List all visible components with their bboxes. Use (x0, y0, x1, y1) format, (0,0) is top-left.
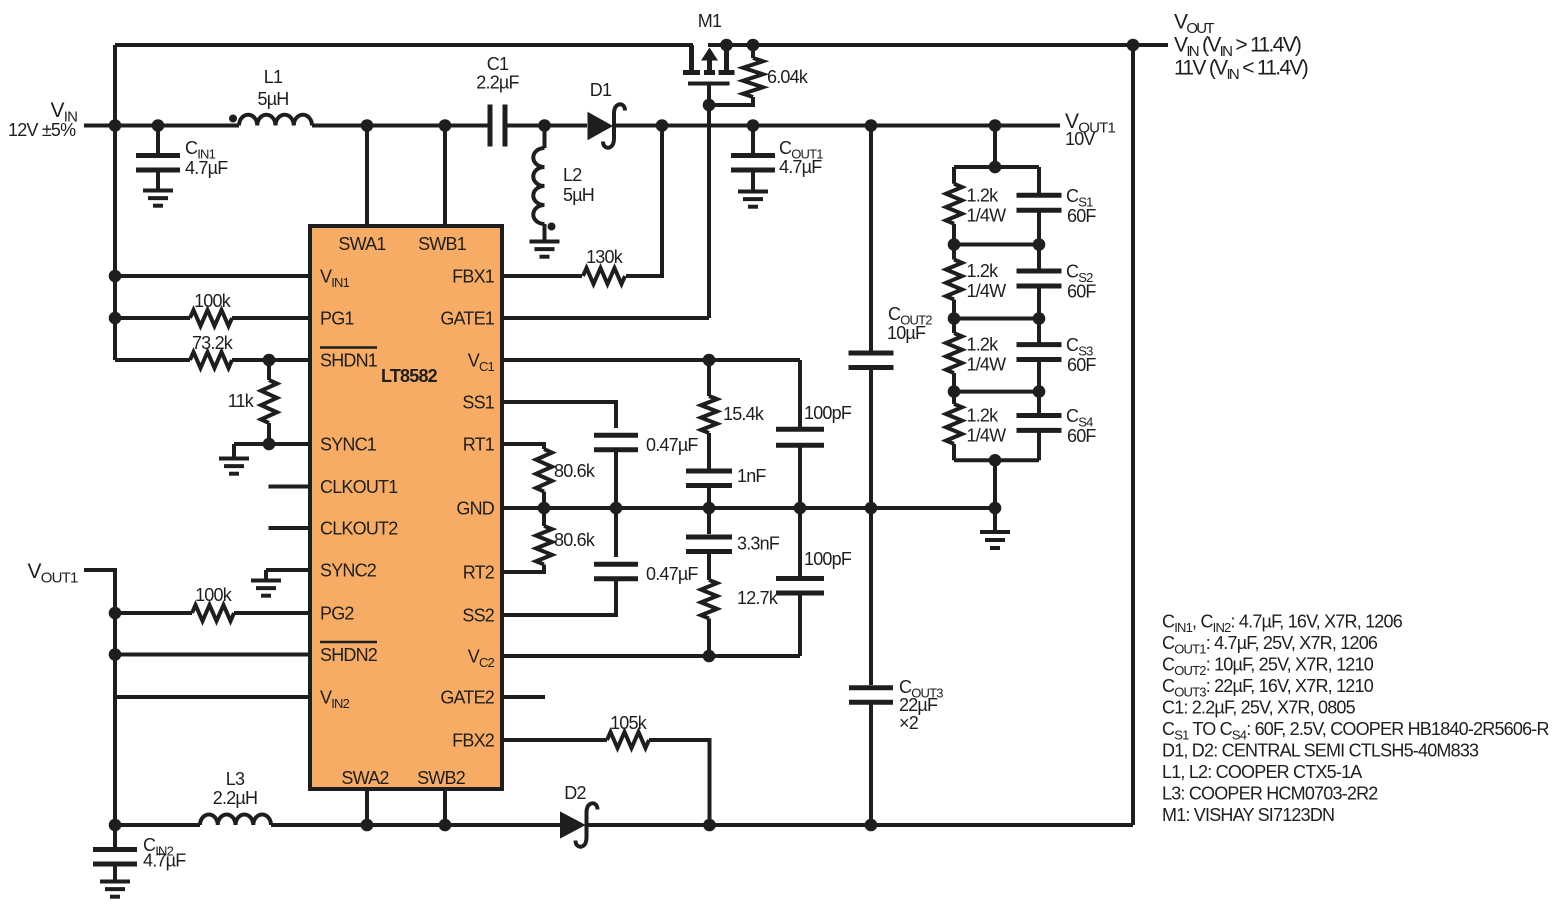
svg-text:4.7µF: 4.7µF (185, 158, 228, 178)
svg-text:105k: 105k (610, 713, 648, 733)
wire VOUT lead stub (1133, 43, 1168, 47)
inductor L2 stub (543, 126, 547, 149)
wire ladder bar y391.6 (954, 390, 1039, 394)
capacitor 1nF (686, 468, 732, 473)
wire 3.3nF top stub (707, 508, 711, 534)
capacitor CIN2 stem (113, 864, 117, 881)
wire 3.3nF to 12.7k (707, 552, 711, 581)
svg-text:GATE1: GATE1 (440, 309, 494, 329)
inductor L1 (239, 115, 312, 126)
wire SYNC1 row (269, 442, 310, 446)
svg-text:COUT3: 22µF, 16V, X7R, 1210: COUT3: 22µF, 16V, X7R, 1210 (1162, 676, 1374, 700)
wire CLKOUT2 stub (269, 526, 311, 530)
ground GND row (980, 530, 1010, 534)
transistor M1 drain stub (689, 45, 694, 70)
wire SS1 row (502, 402, 616, 428)
node FBX2 bottom dot (703, 819, 716, 832)
capacitor CS1 bottom stub (1037, 210, 1041, 244)
wire SHDN1 row left (115, 358, 190, 362)
transistor M1 drain bar (683, 70, 700, 75)
svg-text:1.2k: 1.2k (967, 185, 1000, 205)
wire SYNC1 ground stem (232, 444, 236, 458)
svg-text:LT8582: LT8582 (381, 366, 438, 386)
node VIN lead (84, 124, 239, 128)
node ladder left dot y391.6 (948, 385, 961, 398)
node ladder right dot y244.5 (1033, 238, 1046, 251)
node COUT2 top dot (865, 119, 878, 132)
wire L1 to C1 (312, 124, 488, 128)
capacitor CS2 bottom stub (1037, 286, 1041, 319)
svg-text:1/4W: 1/4W (967, 281, 1007, 301)
transistor M1 source bar (719, 70, 735, 75)
resistor 1.2k #3 top stub (952, 319, 956, 334)
wire 100pF top to GND row (798, 445, 802, 508)
diode D2 schottky cathode (576, 803, 598, 846)
node VOUT junction dot (1127, 39, 1140, 52)
capacitor CIN2 (93, 847, 137, 852)
svg-text:3.3nF: 3.3nF (737, 534, 780, 554)
node SHDN1 dot (263, 354, 276, 367)
node ladder top bar dot (989, 161, 1002, 174)
wire SWB1 vertical (443, 126, 447, 227)
wire gate to 6.04k (709, 97, 753, 105)
node L2 tap dot (538, 119, 551, 132)
wire 80.6k RT2 top stub (542, 508, 546, 526)
resistor 130k (583, 268, 625, 284)
svg-text:D1: D1 (590, 80, 612, 100)
wire ladder top stub (993, 126, 997, 168)
diode D1 schottky cathode (603, 104, 625, 147)
wire M1 gate to GATE1 (707, 105, 711, 318)
svg-text:60F: 60F (1067, 206, 1096, 226)
resistor 1.2k #3 (946, 333, 962, 373)
svg-text:L2: L2 (563, 165, 582, 185)
wire top rail left (VIN to M1 drain) (115, 43, 693, 47)
wire VOUT1 lead left (84, 570, 115, 825)
wire top rail right (M1 source to VOUT) (708, 43, 1133, 47)
ground CIN1 (143, 189, 173, 193)
wire COUT3 lower (869, 703, 873, 826)
svg-text:C1: 2.2µF, 25V, X7R, 0805: C1: 2.2µF, 25V, X7R, 0805 (1162, 698, 1356, 718)
ground CIN2 (100, 880, 130, 884)
resistor 1.2k #2 bottom stub (952, 300, 956, 319)
capacitor 100pF bottom (776, 576, 824, 581)
node COUT3 bottom dot (865, 819, 878, 832)
resistor 100k PG1 (190, 310, 232, 326)
wire FBX2 row left (502, 738, 607, 742)
node VIN junction dot (109, 119, 122, 132)
node ladder left dot y244.5 (948, 238, 961, 251)
wire COUT3 upper (869, 508, 873, 685)
capacitor CIN2 stub (113, 825, 117, 847)
wire SYNC2 row (266, 568, 310, 572)
svg-text:80.6k: 80.6k (554, 461, 596, 481)
svg-text:GND: GND (456, 499, 494, 519)
svg-text:100pF: 100pF (804, 403, 852, 423)
capacitor CS4 bottom stub (1037, 430, 1041, 460)
node SWB2 dot (439, 819, 452, 832)
svg-text:130k: 130k (586, 247, 624, 267)
node GND 1nF dot (703, 502, 716, 515)
resistor 1.2k #1 bottom stub (952, 224, 956, 245)
IC pin SHDN1 overline (320, 346, 377, 349)
svg-text:4.7µF: 4.7µF (143, 851, 186, 871)
svg-text:VOUT1: VOUT1 (28, 560, 78, 587)
wire COUT2 lower (869, 368, 873, 509)
capacitor CS2 (1017, 269, 1062, 274)
resistor 1.2k #1 (946, 184, 962, 224)
svg-text:PG1: PG1 (320, 309, 354, 329)
inductor L1 phasing dot (229, 115, 237, 123)
node PG2 dot (109, 607, 122, 620)
wire 1nF to GND row (707, 486, 711, 509)
transistor M1 gate bar (688, 82, 730, 86)
node SWA1 top dot (361, 119, 374, 132)
svg-text:L3: COOPER HCM0703-2R2: L3: COOPER HCM0703-2R2 (1162, 784, 1378, 804)
capacitor COUT1 stub (751, 126, 755, 154)
capacitor C1 (488, 105, 493, 147)
svg-text:1nF: 1nF (737, 466, 766, 486)
IC pin SHDN2 overline (320, 641, 377, 644)
inductor L2 (533, 148, 544, 224)
diode D2 anode triangle (561, 813, 584, 837)
node SYNC1 dot (263, 438, 276, 451)
svg-text:60F: 60F (1067, 426, 1096, 446)
wire 15.4k to 1nF (707, 433, 711, 471)
capacitor CS2 top stub (1037, 245, 1041, 272)
svg-text:M1: M1 (698, 11, 722, 31)
svg-text:SHDN1: SHDN1 (320, 351, 378, 371)
node M1 gate dot (703, 99, 716, 112)
svg-text:SWB2: SWB2 (417, 768, 466, 788)
svg-text:100k: 100k (195, 585, 233, 605)
capacitor COUT2 (849, 350, 894, 355)
svg-text:15.4k: 15.4k (723, 404, 765, 424)
svg-text:CS1 TO CS4: 60F, 2.5V, COOPER: CS1 TO CS4: 60F, 2.5V, COOPER HB1840-2R5… (1162, 719, 1549, 743)
svg-text:CLKOUT2: CLKOUT2 (320, 519, 398, 539)
wire 0.47uF bot top stub (614, 508, 618, 557)
svg-text:4.7µF: 4.7µF (779, 157, 822, 177)
capacitor CS3 (1017, 342, 1062, 347)
inductor L2 phasing dot (548, 223, 556, 231)
resistor 100k PG2 (192, 605, 234, 621)
resistor 15.4k (701, 396, 717, 433)
svg-text:×2: ×2 (899, 713, 919, 733)
svg-text:L1, L2: COOPER CTX5-1A: L1, L2: COOPER CTX5-1A (1162, 762, 1362, 782)
ground SYNC2 (251, 579, 281, 583)
wire VIN2 row (115, 695, 310, 699)
svg-text:CLKOUT1: CLKOUT1 (320, 477, 398, 497)
node PG1 dot (109, 312, 122, 325)
node D1 cathode dot (656, 119, 669, 132)
wire SWB2 vertical (443, 789, 447, 825)
transistor M1 gate stem (707, 84, 711, 106)
svg-text:CIN1, CIN2: 4.7µF, 16V, X7R, 1: CIN1, CIN2: 4.7µF, 16V, X7R, 1206 (1162, 612, 1403, 636)
wire VOUT1 lead right (995, 124, 1060, 128)
resistor 11k (261, 380, 277, 423)
capacitor CIN1 dot (152, 119, 165, 132)
resistor 1.2k #4 (946, 404, 962, 444)
wire SWA1 vertical (365, 126, 369, 227)
wire ladder bottom bar (954, 458, 1039, 462)
diode D1 anode triangle (589, 114, 612, 139)
node GND 0.47uF dot (610, 502, 623, 515)
svg-text:2.2µF: 2.2µF (476, 73, 519, 93)
svg-text:RT2: RT2 (463, 563, 495, 583)
wire 6.04k top (751, 45, 755, 58)
wire PG1 row left (115, 316, 190, 320)
wire RT2 row (502, 565, 544, 573)
wire 11k top stub (267, 360, 271, 380)
wire FBX1 row left (502, 274, 582, 278)
resistor 80.6k RT1 (536, 449, 552, 492)
node bottom rail CIN2 dot (109, 819, 122, 832)
svg-text:80.6k: 80.6k (554, 530, 596, 550)
svg-text:22µF: 22µF (899, 695, 938, 715)
wire GND row (502, 506, 995, 510)
wire ladder bottom stub (993, 460, 997, 508)
resistor 1.2k #4 top stub (952, 392, 956, 404)
wire 100pF top stub (798, 360, 802, 429)
transistor M1 source stub (724, 45, 729, 70)
node SWB1 top dot (439, 119, 452, 132)
capacitor 0.47uF top (594, 433, 638, 438)
capacitor CIN1 (136, 153, 180, 158)
svg-text:6.04k: 6.04k (767, 67, 809, 87)
wire SWA2 vertical (365, 789, 369, 825)
svg-text:0.47µF: 0.47µF (646, 435, 698, 455)
resistor 1.2k #2 top stub (952, 245, 956, 260)
wire L3 to D2 (271, 823, 561, 827)
svg-text:RT1: RT1 (463, 435, 495, 455)
svg-text:11V (VIN < 11.4V): 11V (VIN < 11.4V) (1174, 57, 1308, 84)
svg-text:2.2µH: 2.2µH (213, 788, 257, 808)
node GND COUT2 dot (865, 502, 878, 515)
svg-text:60F: 60F (1067, 282, 1096, 302)
svg-text:1.2k: 1.2k (967, 335, 1000, 355)
node GND 100pF dot (794, 502, 807, 515)
IC U1 LT8582 body (310, 226, 502, 789)
node SWA2 dot (361, 819, 374, 832)
wire COUT2 upper (869, 126, 873, 351)
wire SHDN2 row (115, 653, 310, 657)
svg-text:SWA1: SWA1 (338, 234, 386, 254)
wire RT1 row (502, 444, 544, 449)
wire VOUT right vertical (1131, 45, 1135, 825)
node ladder right dot y391.6 (1033, 385, 1046, 398)
wire D2 to VOUT (588, 823, 1133, 827)
svg-text:SYNC2: SYNC2 (320, 561, 377, 581)
wire PG2 row left (115, 611, 192, 615)
svg-text:D2: D2 (564, 783, 586, 803)
wire SYNC2 ground stem (264, 570, 268, 580)
capacitor CIN1 stub (156, 126, 160, 154)
capacitor 0.47uF bottom (594, 562, 638, 567)
svg-text:1/4W: 1/4W (967, 355, 1007, 375)
svg-text:M1: VISHAY SI7123DN: M1: VISHAY SI7123DN (1162, 805, 1334, 825)
ground L2 (530, 240, 560, 244)
capacitor CS4 (1017, 413, 1062, 418)
svg-text:5µH: 5µH (258, 89, 289, 109)
wire 100pF bot to VC2 row (798, 593, 802, 656)
wire 0.47uF top to GND row (614, 450, 618, 508)
wire 12.7k to VC2 row (707, 619, 711, 657)
svg-text:L1: L1 (264, 67, 283, 87)
svg-text:SWA2: SWA2 (341, 768, 389, 788)
node VIN1 dot (109, 270, 122, 283)
node GND 80.6k dot (538, 502, 551, 515)
svg-text:73.2k: 73.2k (192, 333, 234, 353)
svg-text:SS2: SS2 (462, 606, 494, 626)
node VC1 15.4k dot (703, 354, 716, 367)
svg-text:D1, D2: CENTRAL SEMI CTLSH5-40: D1, D2: CENTRAL SEMI CTLSH5-40M833 (1162, 741, 1479, 761)
resistor 1.2k #3 bottom stub (952, 373, 956, 392)
wire FBX2 row right (649, 740, 710, 825)
capacitor CIN1 stem (156, 170, 160, 190)
node ladder left dot y318.5 (948, 312, 961, 325)
capacitor 100pF top (776, 427, 824, 432)
wire bottom rail left (115, 823, 200, 827)
svg-text:FBX1: FBX1 (452, 267, 495, 287)
wire left vertical VIN (113, 45, 117, 360)
svg-text:5µH: 5µH (563, 185, 594, 205)
svg-text:1.2k: 1.2k (967, 261, 1000, 281)
resistor 80.6k RT2 (536, 526, 552, 565)
resistor 1.2k #4 bottom stub (952, 444, 956, 460)
svg-text:SHDN2: SHDN2 (320, 645, 378, 665)
svg-text:1/4W: 1/4W (967, 425, 1007, 445)
svg-text:0.47µF: 0.47µF (646, 564, 698, 584)
svg-text:1.2k: 1.2k (967, 405, 1000, 425)
wire GATE1 row (502, 316, 709, 320)
svg-text:C1: C1 (487, 54, 509, 74)
inductor L2 stem (543, 224, 547, 241)
wire 80.6k RT1 to GND row (542, 492, 546, 509)
wire 11k bottom stub (267, 423, 271, 444)
ground SYNC1 (219, 457, 249, 461)
capacitor COUT3 (849, 685, 893, 690)
svg-text:10V: 10V (1065, 129, 1095, 149)
wire SHDN1 row right (232, 358, 310, 362)
svg-text:GATE2: GATE2 (440, 688, 494, 708)
node 6.04k top dot (747, 39, 760, 52)
wire SS2 row (502, 579, 616, 615)
wire FBX1 row right (626, 126, 662, 277)
resistor 12.7k (701, 580, 717, 619)
capacitor CS1 top stub (1037, 167, 1041, 195)
wire VIN1 row (115, 274, 310, 278)
wire VC1 row (502, 358, 800, 362)
svg-text:1/4W: 1/4W (967, 205, 1007, 225)
node ladder top dot (989, 119, 1002, 132)
svg-text:SYNC1: SYNC1 (320, 435, 377, 455)
wire PG1 row right (232, 316, 310, 320)
wire SYNC1 ground lead (234, 442, 269, 446)
node COUT1 dot (747, 119, 760, 132)
wire CLKOUT1 stub (269, 485, 311, 489)
node SHDN2 dot (109, 648, 122, 661)
capacitor CS4 top stub (1037, 392, 1041, 416)
node ladder bottom dot (989, 454, 1002, 467)
svg-text:PG2: PG2 (320, 604, 354, 624)
wire PG2 row right (234, 611, 310, 615)
resistor 73.2k (190, 352, 232, 368)
wire ladder top bar (954, 165, 1039, 169)
capacitor COUT1 stem (751, 170, 755, 191)
resistor 1.2k #1 top stub (952, 167, 956, 184)
wire GATE2 stub (502, 695, 545, 699)
capacitor CS1 (1017, 193, 1062, 198)
wire ladder bar y318.5 (954, 317, 1039, 321)
wire C1 to D1 (508, 124, 588, 128)
svg-text:10µF: 10µF (887, 323, 926, 343)
node ladder right dot y318.5 (1033, 312, 1046, 325)
svg-text:COUT2: 10µF, 25V, X7R, 1210: COUT2: 10µF, 25V, X7R, 1210 (1162, 655, 1374, 679)
inductor L3 (200, 815, 271, 825)
resistor 1.2k #2 (946, 260, 962, 300)
ground COUT1 (738, 190, 768, 194)
svg-text:100k: 100k (194, 291, 232, 311)
wire VC2 row (502, 654, 800, 658)
svg-text:12.7k: 12.7k (737, 588, 779, 608)
svg-text:SS1: SS1 (462, 393, 494, 413)
svg-text:COUT1: 4.7µF, 25V, X7R, 1206: COUT1: 4.7µF, 25V, X7R, 1206 (1162, 633, 1378, 657)
wire 15.4k top stub (707, 360, 711, 396)
wire ladder bar y244.5 (954, 243, 1039, 247)
wire GND ground stem (993, 508, 997, 531)
svg-text:SWB1: SWB1 (418, 234, 467, 254)
svg-text:12V ±5%: 12V ±5% (8, 120, 76, 140)
node GND ladder dot (989, 502, 1002, 515)
svg-text:11k: 11k (228, 391, 255, 411)
resistor 6.04k (743, 58, 763, 97)
wire 100pF bot top stub (798, 508, 802, 579)
transistor M1 body arrow (701, 48, 718, 61)
svg-text:60F: 60F (1067, 355, 1096, 375)
node VC2 12.7k dot (703, 650, 716, 663)
svg-text:FBX2: FBX2 (452, 731, 495, 751)
svg-text:100pF: 100pF (804, 549, 852, 569)
wire D1 to VOUT1 node (613, 124, 1060, 128)
transistor M1 body bar (704, 70, 715, 75)
capacitor COUT1 (731, 153, 775, 158)
node M1 source dot (720, 39, 733, 52)
capacitor CS3 bottom stub (1037, 360, 1041, 392)
capacitor 3.3nF (686, 534, 732, 539)
resistor 105k (607, 732, 649, 748)
svg-text:L3: L3 (226, 769, 245, 789)
capacitor CS3 top stub (1037, 319, 1041, 345)
